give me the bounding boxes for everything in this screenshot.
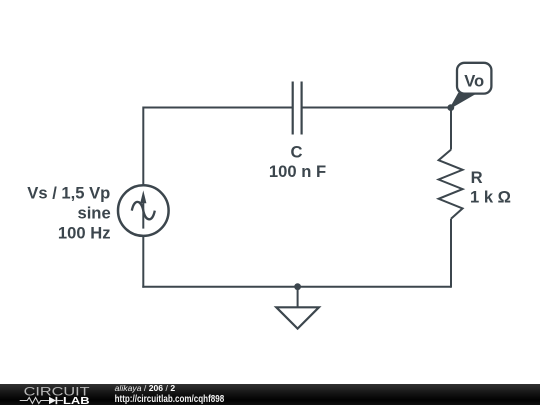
svg-text:alikaya / 206 / 2: alikaya / 206 / 2 xyxy=(115,384,176,393)
svg-text:1 k Ω: 1 k Ω xyxy=(470,187,511,206)
wire left lower segment xyxy=(142,236,144,288)
node B dot (ground junction) xyxy=(294,283,301,290)
svg-text:R: R xyxy=(471,168,483,187)
wire top-right segment (capacitor right plate to node A) xyxy=(302,107,451,109)
svg-text:http://circuitlab.com/cqhf898: http://circuitlab.com/cqhf898 xyxy=(115,394,225,405)
svg-text:100 Hz: 100 Hz xyxy=(58,223,111,242)
ground stub wire xyxy=(297,287,299,308)
Vo flag pointer wedge xyxy=(451,93,475,107)
capacitor C plates xyxy=(293,82,302,135)
voltage source V1 arrow xyxy=(140,190,146,228)
footer bar xyxy=(0,384,540,405)
logo wire to LAB xyxy=(57,400,63,402)
node A dot (Vo junction) xyxy=(447,104,454,111)
voltage source V1 circle xyxy=(118,185,169,236)
wire left upper segment xyxy=(142,107,144,186)
logo wire with resistor xyxy=(20,398,49,404)
svg-text:Vo: Vo xyxy=(464,72,484,91)
ground triangle xyxy=(276,307,319,328)
svg-text:Vs / 1,5 Vp: Vs / 1,5 Vp xyxy=(27,184,110,203)
resistor R zigzag xyxy=(439,150,463,219)
wire top-left segment (source top to capacitor left plate) xyxy=(143,107,292,109)
wire right upper segment (node A to resistor top) xyxy=(450,108,452,150)
svg-text:100 n F: 100 n F xyxy=(269,162,326,181)
logo diode xyxy=(49,397,56,404)
svg-text:sine: sine xyxy=(77,204,110,223)
wire right lower segment (resistor bottom to corner) xyxy=(450,219,452,288)
Vo flag box xyxy=(457,63,491,94)
svg-text:C: C xyxy=(291,143,303,162)
svg-text:LAB: LAB xyxy=(63,396,90,405)
voltage source V1 sine wave xyxy=(132,202,155,219)
wire bottom segment xyxy=(142,286,451,288)
